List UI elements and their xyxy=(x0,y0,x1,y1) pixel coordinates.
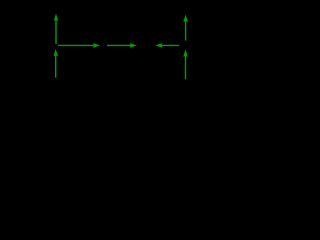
background xyxy=(0,0,193,92)
vector arrow V2 (up, top-right) xyxy=(183,15,188,41)
vector arrow V5 (left, middle-right) xyxy=(155,43,179,48)
vector arrow V7 (up, bottom-right) xyxy=(183,49,188,79)
vector arrow V3 (right, middle-left) xyxy=(58,43,100,48)
vector arrow V6 (up, bottom-left) xyxy=(53,49,58,78)
vector arrow V1 (up, top-left) xyxy=(54,14,59,45)
vector arrow V4 (right, middle-center) xyxy=(107,43,137,48)
